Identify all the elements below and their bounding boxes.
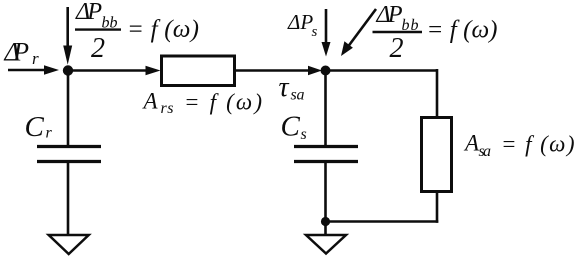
svg-text:sa: sa [291, 87, 305, 104]
arrowhead input dPr [44, 65, 59, 74]
junction dot [321, 217, 330, 226]
arrowhead down left [63, 46, 72, 65]
arrowheads [44, 41, 353, 226]
input arrow dPr [8, 69, 46, 72]
resistor Ars box [162, 56, 235, 86]
capacitor Cr plates [37, 145, 101, 148]
svg-text:r: r [46, 125, 53, 142]
bottom wire [326, 220, 439, 223]
svg-text:C: C [25, 111, 45, 143]
wire node s down to Cs [324, 71, 327, 147]
svg-text:2: 2 [390, 33, 404, 64]
ground right [306, 235, 346, 254]
svg-text:ΔP: ΔP [75, 0, 102, 25]
svg-text:ΔP: ΔP [287, 10, 313, 34]
resistor Asa box [422, 118, 452, 192]
wire node r to resistor [68, 69, 147, 72]
down arrow dPs [325, 9, 328, 44]
ground left [49, 235, 89, 254]
svg-text:C: C [281, 111, 301, 143]
svg-text:A: A [463, 131, 480, 156]
svg-text:ΔP: ΔP [4, 38, 30, 67]
wire resistor to node s [235, 69, 311, 72]
svg-text:rs: rs [161, 100, 174, 117]
node s [321, 66, 331, 76]
wire Asa box to bottom [436, 191, 439, 223]
arrowhead diagonal [341, 41, 353, 56]
wire Cr to ground [67, 161, 70, 235]
svg-text:= f (ω): = f (ω) [127, 16, 199, 43]
svg-text:sa: sa [479, 143, 492, 160]
fraction bar left [75, 28, 121, 30]
svg-text:= f (ω): = f (ω) [501, 132, 575, 157]
wire node r down to Cr [67, 71, 70, 147]
down arrow left [66, 7, 69, 48]
svg-text:ΔP: ΔP [376, 2, 403, 28]
wire down to Asa box [436, 69, 439, 118]
svg-text:2: 2 [91, 33, 105, 64]
diagonal arrow [347, 9, 376, 48]
svg-text:= f (ω): = f (ω) [184, 90, 262, 115]
arrowhead into resistor [146, 66, 161, 75]
svg-text:s: s [301, 126, 307, 143]
svg-text:A: A [142, 89, 159, 114]
svg-text:= f (ω): = f (ω) [427, 17, 498, 44]
arrowhead down dPs [322, 42, 331, 57]
arrowhead into node s [308, 66, 322, 75]
svg-text:τ: τ [279, 72, 290, 103]
fraction bar right [373, 31, 423, 33]
svg-text:s: s [312, 24, 318, 40]
capacitor Cs plates [294, 145, 358, 148]
svg-text:r: r [32, 49, 39, 68]
node r [63, 65, 73, 75]
wire Cs to junction [324, 161, 327, 235]
wire node s right [326, 69, 438, 72]
